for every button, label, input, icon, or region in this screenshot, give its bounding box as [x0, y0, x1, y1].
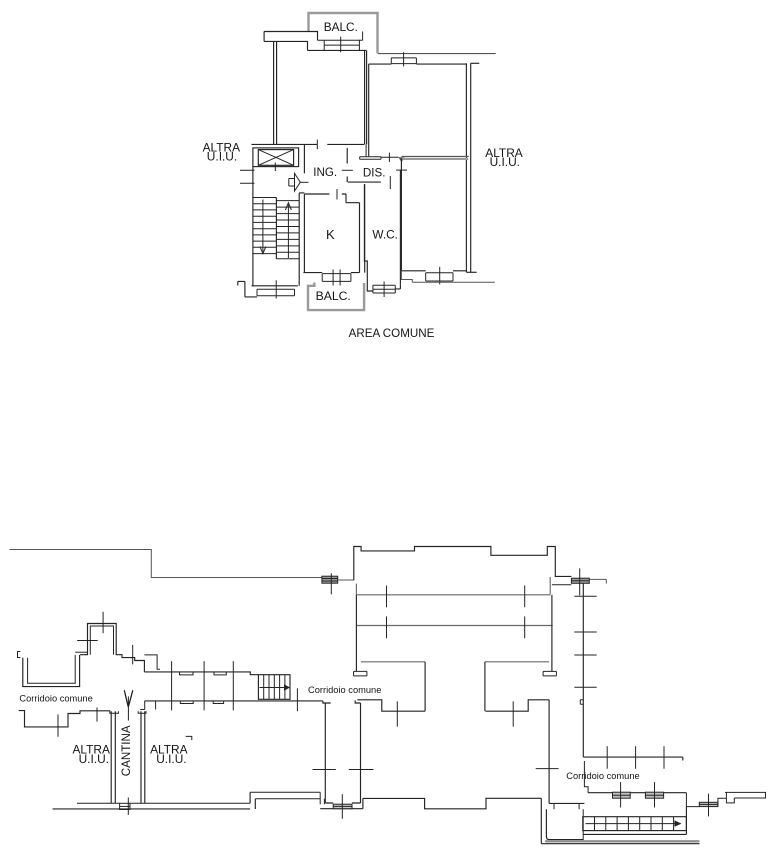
stairwell south wall: [252, 285, 298, 287]
thin wall DIS north right: [381, 156, 399, 158]
stair divider: [275, 198, 277, 259]
site boundary upper: [10, 550, 322, 578]
narrow room east wall: [355, 700, 360, 803]
passage wall left: [541, 798, 699, 843]
bottom wall left lower line: [53, 808, 251, 810]
left room west wall double: [274, 41, 277, 144]
stair right top wall jog: [584, 761, 588, 793]
door tick ING south: [336, 189, 338, 200]
door tick DIS south: [389, 176, 391, 189]
boundary to building: [338, 579, 354, 581]
top-right inner wall line: [552, 584, 572, 586]
bump-east tick vertical: [132, 645, 134, 665]
sill connector: [401, 271, 412, 282]
left room east wall double: [365, 51, 367, 145]
tick west wall: [96, 708, 98, 722]
narrow room window: [333, 804, 352, 809]
bottom wall step up: [250, 792, 255, 809]
right boundary window: [571, 578, 589, 583]
door tick right niche: [512, 701, 514, 726]
south recess left niche: [357, 700, 425, 711]
left corridor U right cap: [75, 651, 87, 653]
corner wedge right room NW: [398, 157, 404, 162]
step left of stairwell: [238, 281, 257, 297]
svg-text:Corridoio comune: Corridoio comune: [308, 685, 381, 695]
left corridor U outer: [23, 655, 80, 687]
K west wall: [303, 194, 305, 273]
svg-text:BALC.: BALC.: [324, 20, 358, 34]
bump tick horizontal: [77, 640, 98, 642]
boundary window: [322, 576, 338, 583]
window tick top balcony: [340, 37, 342, 53]
stair up arrow: [287, 205, 289, 259]
WC south wall: [367, 283, 400, 292]
elevator shaft inner: [258, 150, 293, 166]
cantina west wall cap: [110, 711, 119, 713]
narrow room bottom: [320, 803, 363, 809]
right room window: [426, 273, 453, 281]
corridor bottom wall: [145, 701, 331, 703]
bottom gray band: [546, 840, 699, 842]
hatch window 3: [699, 802, 718, 806]
balcony top (gray parapet): [309, 13, 378, 53]
landing box right: [582, 809, 584, 840]
corridor top wall sill bumps: [180, 672, 227, 675]
cantina west wall double: [111, 711, 115, 803]
ING south wall: [304, 194, 359, 203]
long wall x549: [548, 700, 550, 804]
top-right room north wall: [369, 63, 466, 65]
tick on x549: [536, 768, 559, 770]
svg-text:Corridoio comune: Corridoio comune: [566, 771, 639, 781]
narrow room west wall: [324, 703, 326, 803]
bump tick vertical: [102, 612, 104, 633]
wall outer right of balcony: [378, 53, 496, 55]
elevator X: [258, 150, 293, 166]
bump tower outer: [80, 624, 144, 672]
svg-text:BALC.: BALC.: [316, 289, 351, 303]
hatch window 3 tick: [708, 794, 710, 817]
right pillar foot: [543, 671, 556, 676]
corridor ticks: [172, 661, 234, 710]
left pillar foot: [354, 671, 367, 676]
door tick DIS north: [388, 153, 390, 162]
stair run bottom line: [583, 807, 687, 835]
left room south wall / ING north: [251, 143, 364, 145]
window tick top-right room: [403, 52, 405, 66]
landing box: [546, 809, 583, 839]
DIS north wall double bar: [360, 157, 381, 160]
landing door posts: [554, 803, 579, 809]
south recess right niche: [486, 700, 550, 711]
wall top-left inner: [264, 41, 367, 50]
ING south-west corner: [299, 192, 304, 194]
K south wall: [303, 272, 359, 274]
stairwell window: [257, 289, 295, 296]
K window: [322, 274, 351, 282]
terrace sill line: [412, 281, 495, 283]
boundary window tick: [330, 573, 332, 594]
window top-right room: [391, 58, 416, 64]
corridor bottom left recess: [140, 701, 155, 710]
svg-text:W.C.: W.C.: [372, 228, 398, 242]
door tick ING-DIS: [342, 169, 353, 171]
stairwell east wall: [298, 193, 300, 286]
hatch window 2: [645, 792, 663, 798]
bump tower inner: [90, 626, 113, 655]
hatch window 1 tick: [620, 782, 622, 807]
right room north thick gray wall: [402, 158, 468, 160]
svg-text:U.I.U.: U.I.U.: [79, 752, 109, 766]
K window ticks: [333, 270, 340, 286]
stairwell steps left column: [253, 198, 277, 254]
wall B ticks: [387, 616, 525, 638]
stair area right step: [686, 793, 699, 807]
small stub right-altra: [186, 736, 192, 740]
wall stub above DIS: [365, 144, 367, 156]
left corridor bracket: [18, 652, 21, 658]
left pillar: [355, 595, 357, 672]
left corridor U inner: [28, 655, 76, 683]
svg-text:U.I.U.: U.I.U.: [490, 155, 520, 169]
right wall notch: [580, 700, 583, 705]
stairwell window tick: [275, 280, 277, 298]
top-right room east ledge: [471, 62, 480, 64]
cantina east wall double: [141, 711, 145, 803]
funnel stair arrow: [124, 690, 133, 707]
right hook walls: [718, 792, 766, 806]
stair run arrow: [586, 823, 675, 825]
svg-text:DIS.: DIS.: [363, 166, 386, 179]
right room south wall: [401, 270, 466, 272]
east of bump step: [144, 655, 160, 669]
door tick ING west: [300, 181, 308, 183]
tick right of stair: [296, 688, 298, 711]
stair top wall line: [588, 792, 686, 794]
WC east wall: [399, 171, 401, 285]
svg-text:U.I.U.: U.I.U.: [207, 149, 237, 163]
building top outline: [354, 547, 572, 581]
basement stair steps: [264, 675, 285, 700]
hall wall B: [356, 625, 552, 627]
door tick DIS east: [396, 169, 407, 171]
cantina window: [120, 803, 130, 809]
top-right room east wall double: [466, 63, 470, 272]
right pillar: [551, 595, 553, 672]
svg-text:K: K: [326, 227, 335, 242]
right boundary window tick: [579, 568, 581, 595]
tick below elevator: [274, 163, 276, 172]
wall A ticks: [387, 586, 525, 608]
DIS south wall: [348, 181, 381, 183]
ING west wall upper: [303, 144, 305, 173]
DIS east wall / right room west wall: [400, 159, 402, 271]
right wall x583: [582, 583, 584, 757]
corridor top wall: [144, 672, 258, 675]
wall stub left corner: [263, 32, 265, 42]
tick west dip: [57, 715, 59, 737]
bottom wall left upper line: [77, 802, 250, 804]
svg-text:ING.: ING.: [313, 166, 337, 179]
right corridor ticks: [607, 746, 664, 768]
svg-text:U.I.U.: U.I.U.: [156, 752, 186, 766]
door tick ING north: [316, 140, 318, 150]
ticks on stairwell west wall: [240, 170, 255, 183]
hatch window 1: [613, 792, 631, 798]
west rooms top wall: [19, 711, 111, 727]
narrow room ticks: [313, 769, 374, 771]
door arrow symbol: [289, 179, 295, 187]
basement stair arrow: [260, 687, 285, 689]
stairwell west wall: [252, 167, 254, 286]
right corridor top wall: [583, 757, 683, 760]
right room window tick: [439, 267, 441, 285]
ING/DIS separator wall: [346, 148, 348, 182]
svg-text:AREA COMUNE: AREA COMUNE: [349, 327, 435, 340]
bottom wall right of narrow room: [363, 798, 541, 809]
right room bottom ledge: [466, 271, 476, 273]
WC window: [373, 285, 395, 293]
WC west wall: [364, 184, 367, 282]
basement stair box: [258, 675, 290, 700]
landing top wall: [549, 802, 584, 804]
bottom wall step down narrow room: [320, 792, 324, 804]
right stair run box: [583, 817, 687, 831]
boundary east stub: [589, 579, 606, 583]
hall wall A: [356, 577, 550, 595]
K/WC separator double: [360, 184, 365, 273]
balcony bottom gray parapet: [308, 283, 364, 311]
corridor bottom sill bumps: [180, 701, 223, 704]
stair down arrow: [262, 200, 264, 252]
niche2 top: [485, 661, 549, 663]
window balcony top (french door): [318, 40, 361, 50]
svg-text:CANTINA: CANTINA: [120, 725, 133, 776]
svg-text:Corridoio comune: Corridoio comune: [19, 694, 92, 704]
bottom wall mid upper: [250, 792, 320, 799]
right wall ticks: [574, 596, 596, 687]
top-right room west wall: [368, 64, 370, 156]
elevator shaft outer: [253, 148, 299, 167]
wall y156.4 top-right of DIS: [402, 155, 469, 157]
wall right of balcony window: [359, 32, 362, 41]
cantina east wall cap: [138, 711, 146, 713]
cantina window tick: [127, 798, 129, 816]
narrow room window tick: [341, 794, 343, 819]
WC window tick: [383, 282, 385, 298]
niche1 top: [361, 661, 425, 663]
stair run steps: [595, 817, 674, 831]
wall top-left horizontal outer: [264, 32, 317, 41]
hatch window 2 tick: [654, 782, 656, 807]
stairwell steps right column: [276, 201, 299, 259]
door tick left niche: [396, 701, 398, 726]
